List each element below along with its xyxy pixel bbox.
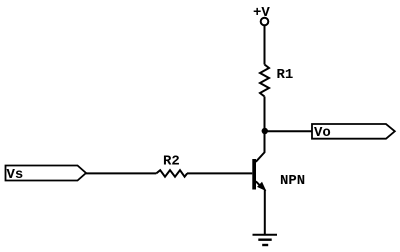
transistor Q1 base bar (252, 159, 256, 190)
node junction dot (262, 128, 268, 134)
wire base to R2 (187, 172, 252, 174)
wire from R1 to collector (264, 97, 266, 153)
resistor R1 (260, 65, 269, 97)
flag Vo (312, 124, 395, 139)
transistor Q1 emitter lead with arrow (256, 181, 262, 187)
ground (253, 234, 278, 236)
flag Vs (6, 166, 87, 181)
wire from junction to Vo flag (265, 130, 313, 132)
wire from +V terminal to R1 (264, 26, 266, 65)
wire R2 to Vs flag (86, 172, 156, 174)
svg-text:R1: R1 (277, 67, 294, 83)
svg-text:NPN: NPN (280, 173, 305, 189)
resistor R2 (156, 170, 187, 177)
transistor Q1 collector lead (256, 152, 265, 162)
wire emitter to ground (264, 190, 266, 235)
terminal +V circle (261, 18, 269, 26)
svg-text:Vs: Vs (7, 167, 24, 183)
svg-text:R2: R2 (163, 154, 180, 170)
svg-text:Vo: Vo (314, 125, 331, 141)
